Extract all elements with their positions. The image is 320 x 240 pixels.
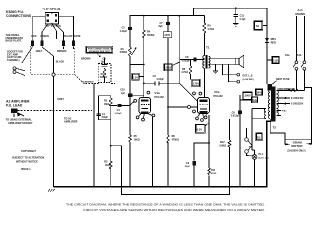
svg-text:8µF: 8µF <box>159 26 164 28</box>
svg-text:6.3V: 6.3V <box>253 99 258 102</box>
svg-text:RED: RED <box>271 42 276 45</box>
svg-text:"L.P." STYLUS: "L.P." STYLUS <box>43 7 61 11</box>
svg-text:R11: R11 <box>211 169 216 172</box>
svg-text:R12: R12 <box>220 141 225 144</box>
svg-text:PCL82: PCL82 <box>213 94 223 98</box>
svg-text:E 220/240V: E 220/240V <box>291 97 304 100</box>
svg-text:0.05µF: 0.05µF <box>157 79 165 81</box>
svg-text:AMPLIFIER SOCKET: AMPLIFIER SOCKET <box>8 122 33 125</box>
svg-text:500KΩ: 500KΩ <box>147 35 154 37</box>
svg-text:EXT. L.S.: EXT. L.S. <box>243 75 254 78</box>
svg-text:0.05µF: 0.05µF <box>115 113 123 115</box>
svg-text:WITHOUT NOTICE: WITHOUT NOTICE <box>16 160 38 163</box>
svg-text:(6.3V .3A): (6.3V .3A) <box>259 156 269 159</box>
svg-text:BROWN: BROWN <box>81 57 91 60</box>
svg-text:(LOW IMP.): (LOW IMP.) <box>243 79 255 81</box>
svg-text:25V: 25V <box>257 139 261 141</box>
svg-text:MOTOR: MOTOR <box>291 144 303 148</box>
svg-text:8µF: 8µF <box>101 61 106 63</box>
svg-text:S2: S2 <box>256 24 260 28</box>
svg-text:PCL82: PCL82 <box>154 95 164 99</box>
svg-text:220V: 220V <box>164 34 170 37</box>
svg-text:0 200/220V: 0 200/220V <box>291 103 304 106</box>
svg-text:T2: T2 <box>273 126 277 130</box>
svg-text:NEXT FUSE: NEXT FUSE <box>276 78 290 81</box>
svg-text:4.7KΩ: 4.7KΩ <box>181 71 188 74</box>
svg-text:50µF: 50µF <box>185 166 191 168</box>
svg-text:CHANNEL): CHANNEL) <box>7 59 20 62</box>
svg-text:215V: 215V <box>273 58 279 62</box>
svg-text:PL1: PL1 <box>259 153 264 156</box>
svg-text:470KΩ: 470KΩ <box>172 139 179 142</box>
svg-text:4.7KΩ: 4.7KΩ <box>207 28 214 31</box>
svg-text:200V: 200V <box>165 65 171 69</box>
svg-text:10KΩ: 10KΩ <box>134 140 140 142</box>
svg-text:P.Bu: P.Bu <box>282 110 287 112</box>
svg-text:ISSUE 1: ISSUE 1 <box>21 168 31 171</box>
svg-text:COPYRIGHT: COPYRIGHT <box>21 150 36 153</box>
svg-text:T1: T1 <box>206 46 210 50</box>
svg-text:BLACK: BLACK <box>64 35 73 38</box>
svg-text:P.U. LEAD: P.U. LEAD <box>6 104 23 108</box>
svg-text:0.002µF: 0.002µF <box>182 60 191 62</box>
svg-text:0.1µF: 0.1µF <box>240 19 247 21</box>
svg-text:240V: 240V <box>257 91 263 94</box>
svg-text:C11: C11 <box>240 15 245 18</box>
svg-text:6.3V: 6.3V <box>197 127 203 131</box>
svg-text:CONNECTIONS: CONNECTIONS <box>6 14 32 18</box>
svg-text:SPEAKER SEE TEXT: SPEAKER SEE TEXT <box>89 50 111 53</box>
svg-text:GREEN: GREEN <box>40 35 49 38</box>
svg-text:BASE-PLATE: BASE-PLATE <box>6 40 22 43</box>
svg-text:470Ω: 470Ω <box>211 172 217 175</box>
svg-text:MAINS: MAINS <box>295 12 305 16</box>
svg-text:S1b: S1b <box>297 54 302 57</box>
svg-text:SCREENED: SCREENED <box>82 82 94 84</box>
svg-text:1MΩ: 1MΩ <box>104 104 109 106</box>
svg-text:170V: 170V <box>193 81 199 85</box>
svg-text:CIRCUIT VOLTAGES ARE SHOWN WIT: CIRCUIT VOLTAGES ARE SHOWN WITHIN RECTAN… <box>83 208 265 212</box>
svg-text:(200/250V ONLY): (200/250V ONLY) <box>287 151 305 153</box>
svg-text:"78" STYLUS: "78" STYLUS <box>45 24 62 28</box>
svg-text:AMPLIFIER: AMPLIFIER <box>64 121 78 124</box>
svg-text:1KΩ: 1KΩ <box>105 165 110 167</box>
svg-text:200V: 200V <box>245 93 251 97</box>
svg-text:0.04µF: 0.04µF <box>120 30 128 33</box>
svg-text:SUBJECT TO ALTERATION: SUBJECT TO ALTERATION <box>12 156 44 159</box>
svg-text:0.012µF: 0.012µF <box>231 116 240 118</box>
svg-text:100µF: 100µF <box>101 117 108 119</box>
svg-text:THE CIRCUIT DIAGRAM, WHERE THE: THE CIRCUIT DIAGRAM, WHERE THE RESISTANC… <box>66 203 265 207</box>
svg-text:GREY: GREY <box>36 50 43 53</box>
svg-text:500KΩ: 500KΩ <box>120 52 127 54</box>
svg-text:MR1: MR1 <box>271 38 277 41</box>
svg-text:C10: C10 <box>120 89 125 92</box>
svg-text:BLACK: BLACK <box>56 61 65 64</box>
svg-text:RED: RED <box>31 35 36 38</box>
svg-text:6.8KΩ: 6.8KΩ <box>219 145 226 147</box>
svg-text:S1a: S1a <box>285 54 290 57</box>
svg-text:BROWN: BROWN <box>57 50 67 53</box>
svg-text:500KΩ: 500KΩ <box>100 77 107 79</box>
svg-text:WHITE: WHITE <box>73 35 81 38</box>
svg-text:GREEN/BROWN: GREEN/BROWN <box>277 89 295 91</box>
svg-text:1µF: 1µF <box>121 93 126 95</box>
svg-text:1.5V: 1.5V <box>133 77 138 80</box>
svg-text:GREY: GREY <box>57 98 64 101</box>
